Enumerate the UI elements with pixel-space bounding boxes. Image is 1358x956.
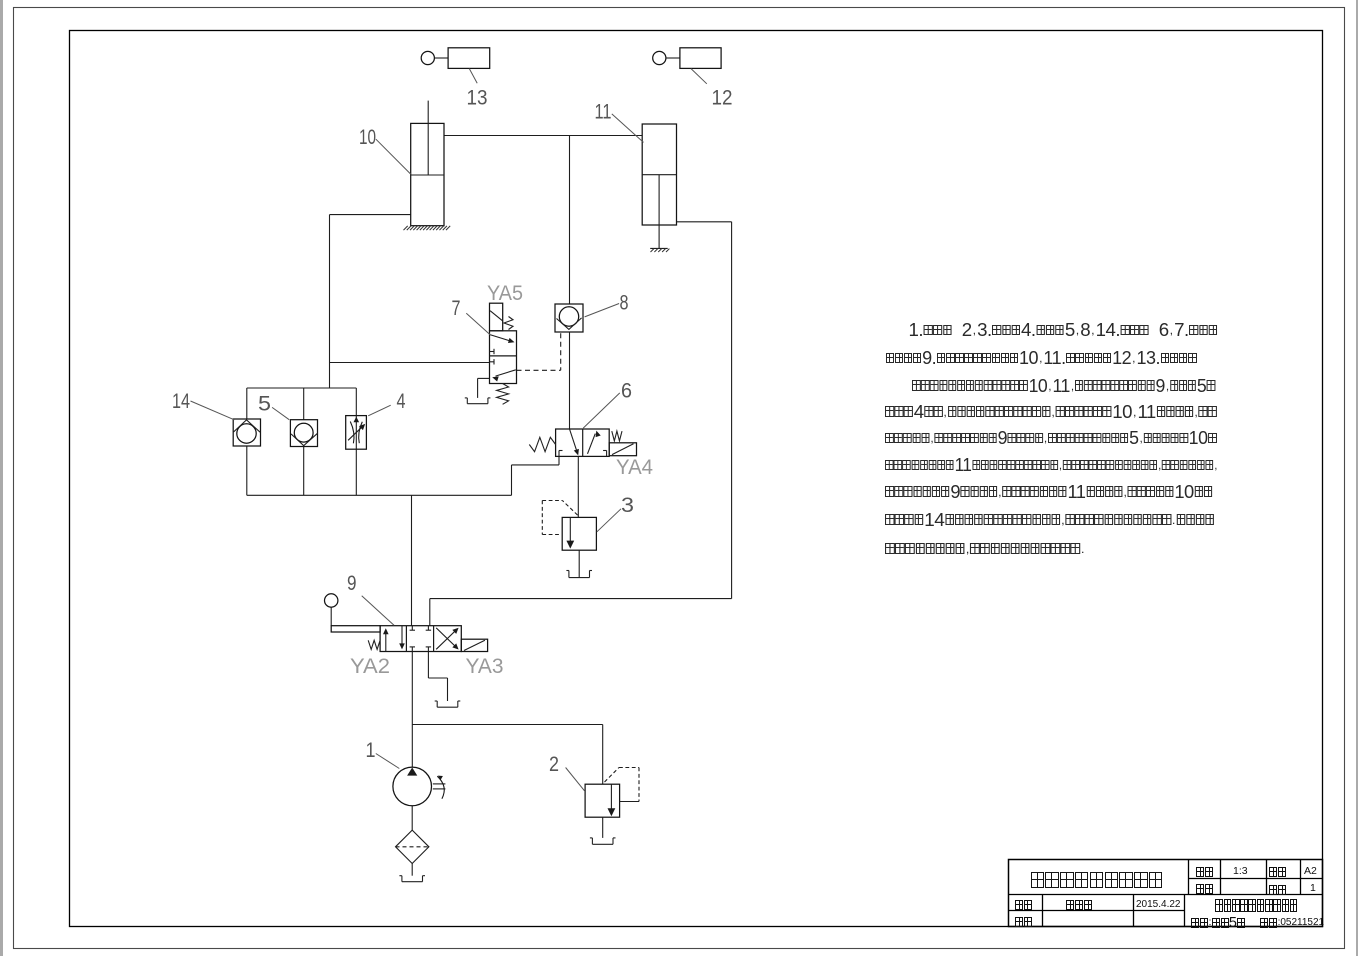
limit switch 12 [653, 48, 721, 69]
svg-text:11: 11 [595, 101, 612, 124]
svg-text:5: 5 [258, 392, 271, 415]
tank at relief valve 2 [590, 817, 616, 844]
filter [396, 806, 429, 864]
wire riser above check valve 14 [246, 388, 248, 419]
wire riser below throttle 4 [355, 449, 357, 495]
tank at valve 9 [435, 701, 461, 707]
relief valve 3 [542, 501, 596, 551]
label 13 [467, 69, 488, 110]
wire cyl10 bottom port [330, 214, 411, 216]
wire riser above check valve 5 [303, 388, 305, 420]
limit switch 13 [421, 48, 490, 69]
svg-text:YA4: YA4 [616, 456, 653, 479]
throttle valve 4 [346, 416, 367, 450]
tank at relief valve 3 [566, 550, 592, 577]
svg-text:3: 3 [621, 494, 634, 517]
svg-text:YA2: YA2 [350, 655, 390, 678]
tank at valve 7 [465, 378, 491, 403]
label 11 [595, 101, 644, 143]
wire check valve 8 to valve 6 [569, 332, 571, 429]
check valve 14 [233, 419, 260, 446]
wire top bus of check-valve block [247, 387, 356, 389]
wire valve 9 A port to cylinder 11 [430, 222, 732, 626]
svg-text:7: 7 [452, 297, 461, 320]
svg-text:10: 10 [359, 126, 376, 149]
label 2 [549, 753, 585, 791]
label YA4 [616, 456, 653, 479]
solenoid valve 7 YA5 [490, 303, 517, 404]
label 1 [366, 739, 400, 769]
tank at pump inlet [399, 864, 425, 882]
wire riser below check valve 5 [303, 447, 305, 496]
wire valve 9 P down to pump [411, 652, 413, 768]
label 4 [368, 390, 406, 416]
wire to valve 7 inlet [330, 362, 490, 364]
svg-text:YA5: YA5 [487, 282, 523, 305]
cylinder 10 [404, 101, 451, 231]
wire pump branch to relief valve 2 [412, 725, 602, 785]
wire cyl10-top to cyl11-top [444, 135, 642, 137]
label 7 [452, 297, 491, 335]
directional valve 9 YA2 YA3 [325, 594, 488, 652]
svg-text:1: 1 [366, 739, 376, 762]
pilot line valve 7 to check valve 8 [517, 333, 561, 370]
label 5 [258, 392, 289, 419]
label 12 [691, 69, 733, 110]
label 8 [585, 291, 629, 317]
cylinder 11 [642, 124, 676, 252]
wire valve 6 to relief valve 3 [577, 456, 579, 517]
label YA2 [350, 655, 390, 678]
label YA5 [487, 282, 523, 305]
label 3 [597, 494, 634, 532]
wire riser above throttle 4 [355, 388, 357, 416]
wire main riser bus to valve 9 P [411, 495, 413, 625]
svg-text:4: 4 [397, 390, 406, 413]
wire bottom bus of check-valve block [247, 494, 512, 496]
svg-text:12: 12 [712, 86, 733, 109]
wire riser below check valve 14 [246, 446, 248, 495]
label 6 [583, 380, 632, 429]
svg-text:2: 2 [549, 753, 559, 776]
wire valve 6 left port to bus [512, 456, 560, 495]
title block [1009, 860, 1323, 927]
svg-text:YA3: YA3 [466, 655, 504, 678]
svg-text:13: 13 [467, 87, 488, 110]
relief valve 2 [585, 768, 639, 818]
label 10 [359, 126, 411, 174]
pump 1 [393, 767, 445, 806]
check valve 5 [290, 420, 317, 447]
wire valve 9 T to tank [428, 652, 447, 702]
label 9 [347, 572, 394, 625]
label 14 [172, 390, 234, 420]
svg-text:9: 9 [347, 572, 357, 595]
svg-text:14: 14 [172, 390, 190, 413]
solenoid valve 6 YA4 [529, 429, 636, 456]
label YA3 [466, 655, 504, 678]
wire left vertical riser [329, 215, 331, 388]
svg-text:6: 6 [621, 380, 632, 403]
check valve 8 [555, 304, 583, 332]
svg-text:8: 8 [620, 291, 629, 314]
wire junction down to check valve 8 [569, 136, 571, 305]
